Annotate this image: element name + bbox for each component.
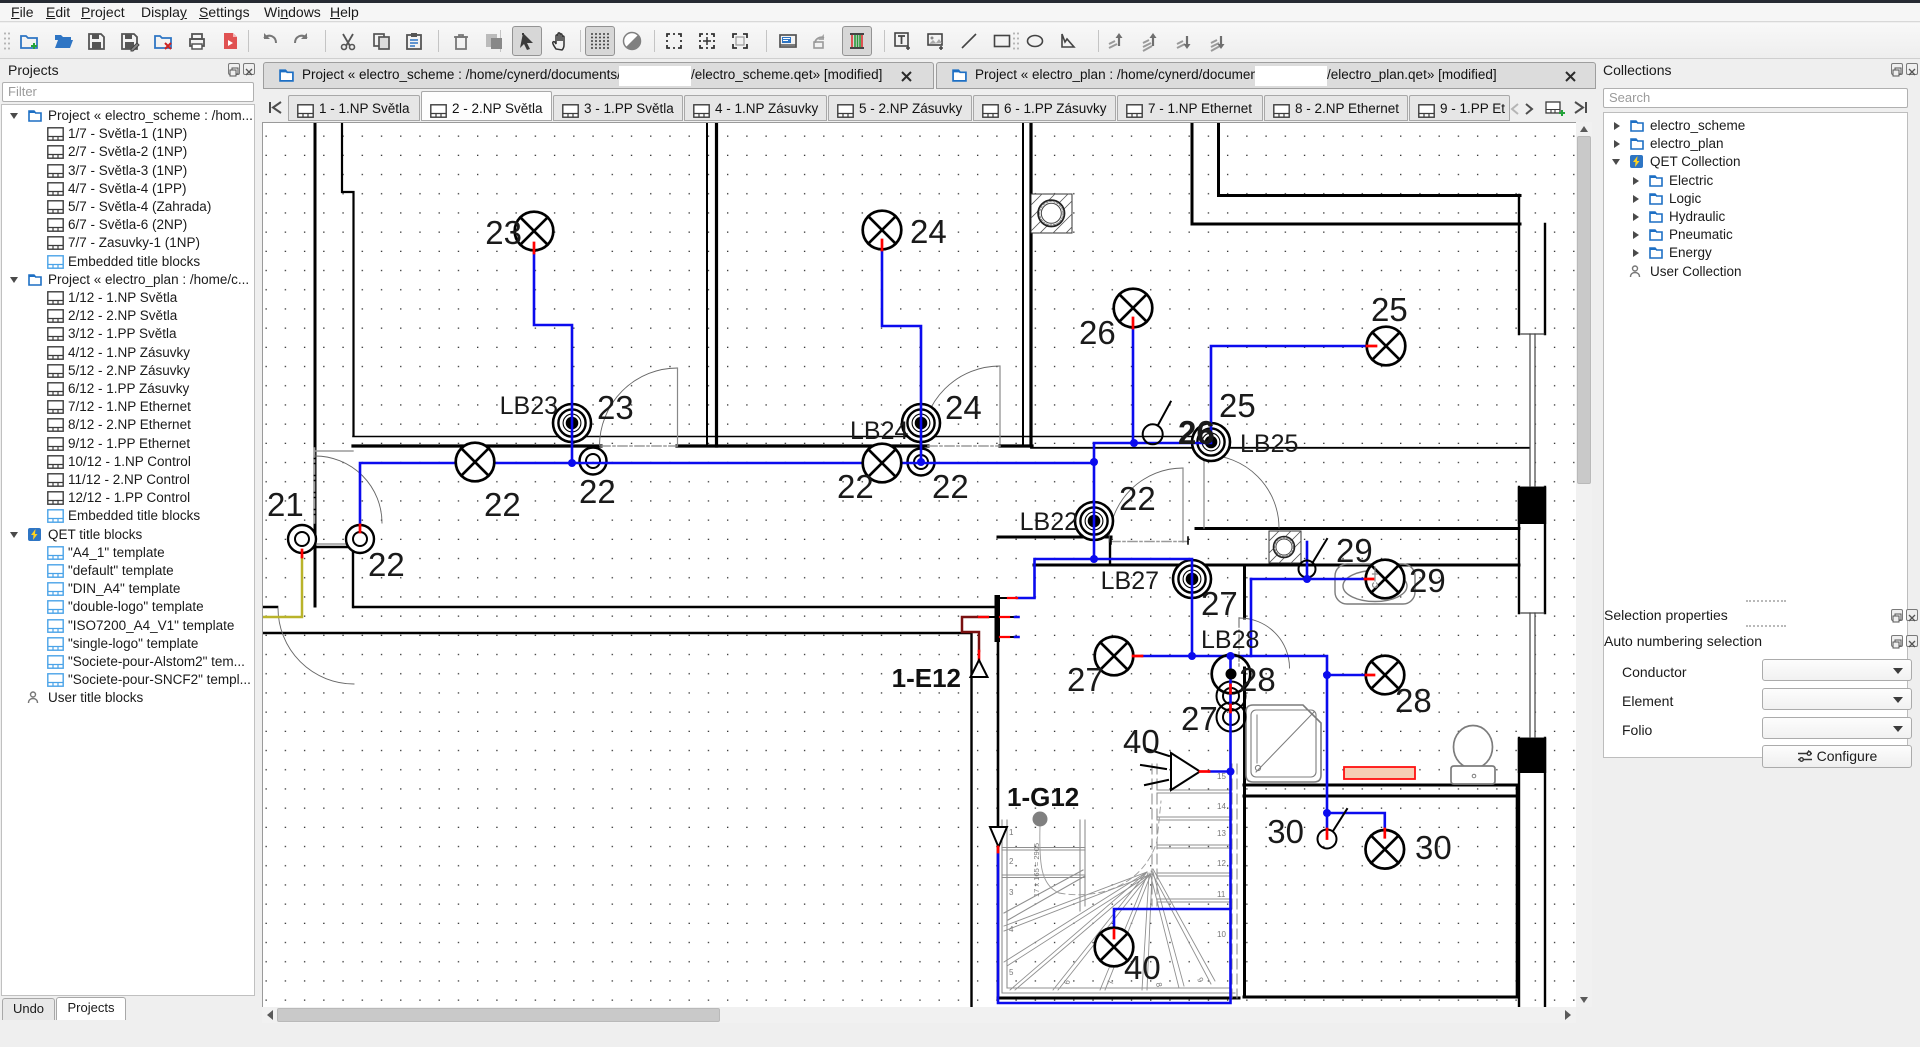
svg-text:29: 29 (1336, 532, 1373, 569)
stairs flight steps (1002, 848, 1085, 878)
ceiling outlet LB23 (553, 404, 591, 442)
door arc hall (1109, 468, 1183, 542)
door arc 21 (315, 456, 382, 523)
svg-text:22: 22 (579, 473, 616, 510)
outlet 27b (1217, 703, 1246, 732)
svg-text:1-E12: 1-E12 (892, 663, 961, 693)
switch S26 (1143, 402, 1171, 445)
svg-text:1: 1 (1009, 828, 1014, 837)
wire fan connect (1209, 770, 1230, 773)
svg-text:22: 22 (837, 468, 874, 505)
svg-text:21: 21 (267, 486, 304, 523)
junction box 22 (580, 448, 607, 475)
lamp L40 (1095, 928, 1134, 967)
svg-text:14: 14 (1217, 802, 1226, 811)
toilet (1451, 726, 1495, 785)
stairs dashed rails (1152, 764, 1237, 998)
svg-text:40: 40 (1124, 949, 1161, 986)
lamp L26 (1114, 289, 1153, 328)
svg-text:LB28: LB28 (1201, 626, 1259, 654)
svg-text:LB27: LB27 (1101, 567, 1159, 595)
wall outer right double (1518, 195, 1520, 1015)
lamp L24 (863, 211, 902, 250)
svg-text:30: 30 (1267, 813, 1304, 850)
node 1-G12 (1033, 812, 1048, 827)
svg-text:12: 12 (1217, 859, 1226, 868)
svg-text:23: 23 (485, 214, 522, 251)
svg-text:17 x 165 = 2905: 17 x 165 = 2905 (1032, 843, 1041, 897)
svg-text:27: 27 (1067, 661, 1104, 698)
wall rooms-bottom thin upper line (353, 436, 1214, 438)
stairs winder rays (1004, 869, 1215, 990)
wall room25 bottom (1196, 527, 1519, 530)
wire to lamp28 (1327, 674, 1366, 677)
svg-text:5: 5 (1009, 968, 1014, 977)
lamp L25 (1367, 327, 1406, 366)
wire lamp23 to LB23 (534, 253, 572, 463)
shower (1246, 705, 1321, 782)
door arc room23 (600, 368, 678, 446)
wall rooms-bottom thick (353, 444, 1032, 447)
chimney right (1269, 531, 1301, 563)
svg-text:22: 22 (484, 486, 521, 523)
door lintels gray (315, 451, 353, 544)
wall left outer (314, 123, 317, 606)
wire corridor main (360, 463, 1094, 525)
door threshold dashdot room23 (601, 445, 677, 447)
svg-text:11: 11 (1217, 890, 1226, 899)
wall lamp 21 (288, 525, 316, 553)
svg-text:26: 26 (1178, 414, 1215, 451)
svg-text:24: 24 (945, 389, 982, 426)
svg-text:LB24: LB24 (850, 417, 908, 445)
door threshold bath (1238, 618, 1240, 668)
wall room30 (1244, 996, 1517, 999)
wall left inner jog (342, 123, 354, 435)
wire lamp24 to LB24 (882, 250, 921, 462)
node below LB27 (1188, 652, 1196, 660)
wall corridor top (354, 606, 998, 609)
svg-text:22: 22 (1119, 480, 1156, 517)
svg-text:24: 24 (910, 213, 947, 250)
ceiling outlet LB27 (1173, 560, 1211, 598)
wire lamp27 row (1142, 656, 1327, 813)
svg-text:28: 28 (1395, 682, 1432, 719)
chimney top (1031, 194, 1072, 233)
lamp L22b (863, 444, 902, 483)
door arc bath (1240, 618, 1290, 668)
wall blocks on right wall (1518, 487, 1546, 524)
ceiling outlet LB22 (1075, 502, 1113, 540)
lamp L22a (456, 443, 495, 482)
svg-text:LB23: LB23 (500, 392, 558, 420)
svg-text:25: 25 (1219, 387, 1256, 424)
fan/ventilator 40 (1141, 749, 1200, 790)
svg-text:30: 30 (1415, 829, 1452, 866)
earth symbol 1-G12 (990, 827, 1007, 847)
faucet (1373, 567, 1378, 588)
svg-text:2: 2 (1009, 857, 1014, 866)
stairs step numbers (1009, 772, 1226, 988)
lamp L27 (1095, 637, 1134, 676)
LB28 lamp with dot (1212, 655, 1251, 694)
node lamp28 tap (1323, 671, 1331, 679)
stairs walk line (1040, 801, 1161, 895)
svg-text:LB22: LB22 (1020, 508, 1078, 536)
wall lamp 22 (346, 525, 374, 553)
outlet 27a (1217, 682, 1246, 711)
wall jamb (1109, 537, 1111, 565)
wall stairroom/bath top (1034, 564, 1519, 567)
svg-text:29: 29 (1409, 562, 1446, 599)
switch S29 (1299, 539, 1328, 578)
door21 threshold (314, 448, 316, 523)
wire LB22 to terminal (1017, 559, 1094, 598)
svg-text:22: 22 (368, 546, 405, 583)
wire maroon to 1-E12 (962, 617, 988, 651)
door arc corridor-left (278, 608, 354, 684)
closet walls (315, 547, 353, 607)
svg-text:4: 4 (1009, 925, 1014, 934)
wall lamp circles (288, 525, 374, 553)
door threshold dashdot room24 (928, 445, 1000, 447)
junction box 24 (908, 449, 935, 476)
node LB28 top (1227, 652, 1235, 660)
wire LB22 to LB27 (1094, 559, 1192, 656)
ceiling outlet LB25 (1192, 423, 1230, 461)
wall top-right L (1191, 123, 1194, 224)
window upper right (1521, 334, 1544, 738)
svg-text:15: 15 (1217, 772, 1226, 781)
circuit number labels (267, 213, 1452, 986)
wall bath bottom double (1244, 784, 1517, 787)
switch S30 (1318, 809, 1348, 849)
node below LB24 (917, 458, 925, 466)
svg-text:22: 22 (932, 468, 969, 505)
wire lamp25-LB25-LB22 (1094, 346, 1367, 559)
door threshold hall (1111, 541, 1188, 543)
wall between room23/24 (706, 123, 708, 446)
wall right of room24 (1022, 123, 1024, 446)
node lamp26 tap (1130, 439, 1138, 447)
wall hall horizontal (998, 536, 1111, 539)
svg-text:40: 40 (1123, 723, 1160, 760)
heater red (1344, 767, 1415, 779)
wire lamp40 branch (1114, 909, 1231, 930)
svg-text:27: 27 (1201, 585, 1238, 622)
svg-text:28: 28 (1239, 661, 1276, 698)
switches (1143, 402, 1347, 849)
svg-text:LB25: LB25 (1240, 430, 1298, 458)
lamp L29 (1366, 560, 1405, 599)
wire bath top row (1251, 578, 1365, 581)
node switch29 (1303, 575, 1311, 583)
junction dots (568, 439, 1331, 817)
svg-text:26: 26 (1079, 314, 1116, 351)
wire lamp26 (1132, 328, 1135, 443)
svg-text:10: 10 (1217, 930, 1226, 939)
wall stair room (998, 997, 1239, 1000)
bathtub (1335, 564, 1415, 604)
node LB22 out (1090, 555, 1098, 563)
stairs right column steps (1157, 790, 1232, 902)
wire room30 (1327, 813, 1385, 829)
node room30 tap (1323, 809, 1331, 817)
wire bath vertical (1250, 579, 1253, 656)
terminal block 1-E12 (979, 595, 1019, 642)
lamp L30 (1366, 830, 1405, 869)
svg-text:23: 23 (597, 389, 634, 426)
small double circles (580, 448, 1246, 732)
wire LB28 stack down and around stairs (998, 656, 1231, 1003)
svg-text:25: 25 (1371, 291, 1408, 328)
red connection ticks (302, 240, 1385, 938)
door arc room25 (1206, 455, 1279, 528)
lamp L28 (1366, 656, 1405, 695)
svg-text:3: 3 (1009, 888, 1014, 897)
node corridor-right (1090, 458, 1098, 466)
LB reference labels (500, 392, 1299, 654)
node fan tap (1227, 768, 1235, 776)
antenna symbol 1-E12 (971, 660, 988, 677)
wall bath left (1243, 565, 1246, 994)
node below LB23 (568, 459, 576, 467)
svg-text:1-G12: 1-G12 (1007, 782, 1079, 812)
net names 1-E12 / 1-G12 (892, 663, 1080, 812)
svg-text:13: 13 (1217, 829, 1226, 838)
wall corridor bottom (263, 632, 971, 635)
wire yellow (lamp21 feed) (263, 557, 302, 617)
lamp L23 (515, 212, 554, 251)
ceiling outlet LB24 (902, 404, 940, 442)
svg-text:27: 27 (1181, 700, 1218, 737)
wire switch29 (1306, 542, 1309, 579)
door arc room24 (922, 366, 1000, 444)
stairs boundary (1002, 820, 1235, 993)
